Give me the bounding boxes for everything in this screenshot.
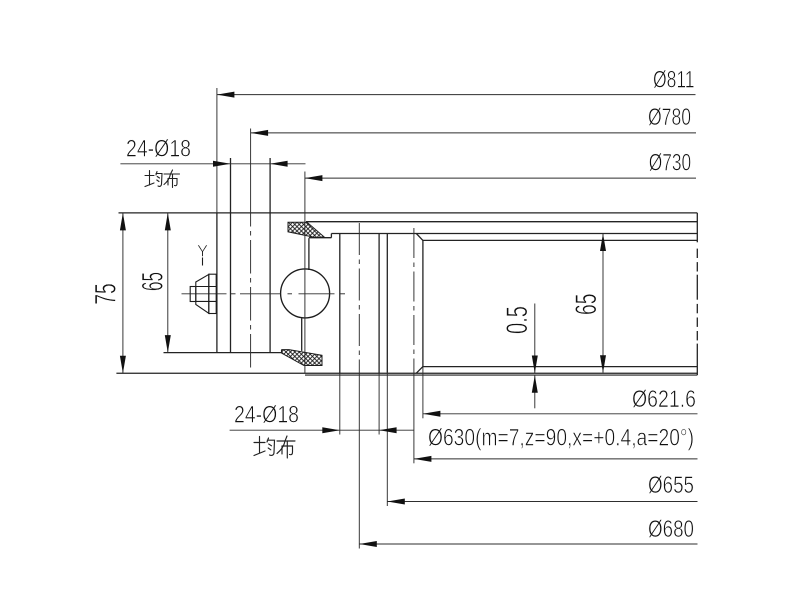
right edge dash 2 — [696, 262, 698, 271]
dim line diameter 730 — [305, 177, 696, 179]
cjk top bu — [164, 170, 180, 188]
svg-text:Ø680: Ø680 — [648, 516, 694, 543]
svg-text:Ø621.6: Ø621.6 — [632, 386, 696, 413]
dim line diameter 621.6 — [423, 413, 698, 415]
arrow d730 — [305, 175, 323, 181]
gear facewidth top line — [423, 239, 697, 241]
arrow bottom 24d18 left — [322, 427, 340, 433]
grease fitting nose — [190, 287, 196, 302]
right edge dash 5 — [696, 318, 698, 327]
top face line (outer ring top / extension) — [119, 212, 698, 214]
arrow d655 — [387, 499, 405, 505]
raceway gap lower outer wall — [301, 318, 303, 351]
outer ring bottom seal lip — [281, 350, 283, 353]
outer ring bolt hole right edge — [269, 158, 271, 353]
seal groove step — [330, 234, 332, 238]
top seal — [288, 222, 325, 237]
outer ring left edge — [216, 213, 218, 353]
arrow 0.5 up — [532, 375, 538, 393]
raceway horizontal centerline — [182, 293, 227, 295]
extension line diameter 655 — [386, 373, 388, 507]
dim line diameter 680 — [359, 543, 697, 545]
inner ring top face — [331, 233, 697, 235]
arrow 65 right down — [600, 355, 606, 373]
dim line 65 left — [167, 213, 169, 353]
inner bolt hole centerline — [358, 223, 360, 392]
gear top chamfer — [416, 234, 423, 241]
arrow d621.6 — [423, 411, 441, 417]
gear bottom chamfer — [416, 367, 423, 374]
dim line 65 right — [602, 234, 604, 373]
gear facewidth bottom line — [423, 366, 697, 368]
grease fitting inner line top — [196, 286, 216, 288]
inner ring bolt hole right edge — [378, 234, 380, 374]
arrow top 24d18 left — [213, 161, 231, 167]
svg-text:Ø630(m=7,z=90,x=+0.4,a=20°): Ø630(m=7,z=90,x=+0.4,a=20°) — [428, 425, 694, 452]
extension line diameter 780 — [250, 129, 252, 227]
arrow d630 — [414, 456, 432, 462]
right edge dash 4 — [696, 304, 698, 313]
svg-text:Ø811: Ø811 — [653, 67, 695, 94]
extension inner hole right — [378, 373, 380, 434]
gear root line — [386, 234, 388, 373]
grease fitting flange — [209, 274, 216, 313]
right edge dash 3 — [696, 275, 698, 300]
grease fitting body trapezoid — [196, 274, 209, 313]
arrow 75 down — [120, 356, 126, 374]
arrow d680 — [359, 541, 377, 547]
dim line diameter 811 — [217, 94, 696, 96]
cover flange bottom line — [306, 221, 697, 223]
raceway gap upper inner wall — [308, 238, 310, 270]
right edge dash 1 — [696, 249, 698, 258]
arrow bottom 24d18 right — [379, 427, 397, 433]
bottom 24-d18 dim line — [230, 429, 414, 431]
arrow 75 up — [120, 213, 126, 231]
dim line 0.5 lower — [534, 375, 536, 408]
svg-text:24-Ø18: 24-Ø18 — [234, 402, 299, 429]
svg-text:Ø780: Ø780 — [648, 104, 691, 131]
svg-text:65: 65 — [570, 294, 603, 316]
bottom chamfer second line — [305, 374, 697, 376]
extension line diameter 680 — [358, 392, 360, 549]
dim line diameter 630 — [414, 458, 698, 460]
arrow d780 — [251, 130, 269, 136]
bottom face line full — [116, 372, 697, 374]
svg-text:Ø655: Ø655 — [648, 472, 694, 499]
extension line diameter 811 — [216, 88, 218, 213]
arrow top 24d18 right — [270, 161, 288, 167]
outer ring bottom face — [164, 352, 282, 354]
inner ring bolt hole left edge — [339, 234, 341, 374]
arrow d811 — [217, 92, 235, 98]
arrow 65 left down — [165, 335, 171, 353]
dim line diameter 655 — [387, 501, 697, 503]
dim line 75 — [122, 213, 124, 373]
gear tip line — [422, 240, 424, 366]
top 24-d18 dim line — [120, 163, 305, 165]
gear pitch centerline — [413, 228, 415, 389]
svg-text:75: 75 — [90, 283, 123, 305]
cjk bottom bu — [277, 436, 295, 458]
right edge dash 6 — [696, 331, 698, 340]
bottom seal — [282, 350, 322, 366]
arrow 65 right up — [600, 234, 606, 252]
cjk bottom jun — [254, 437, 275, 456]
right edge solid bottom — [696, 344, 698, 376]
outer bolt hole centerline — [250, 231, 252, 368]
svg-text:65: 65 — [137, 272, 170, 291]
right edge solid top — [696, 213, 698, 242]
dim line 0.5 upper — [534, 304, 536, 374]
arrow 65 left up — [165, 213, 171, 231]
leader tick under Y — [202, 258, 204, 266]
ball — [281, 269, 330, 318]
extension inner hole left — [339, 373, 341, 434]
grease fitting inner line bottom — [196, 300, 216, 302]
svg-text:Ø730: Ø730 — [649, 150, 692, 177]
cjk top jun — [145, 171, 162, 187]
seal groove floor top — [309, 237, 332, 239]
extension line diameter 621.6 — [422, 367, 424, 419]
svg-text:24-Ø18: 24-Ø18 — [126, 136, 191, 163]
arrow 0.5 down — [532, 356, 538, 374]
svg-text:0.5: 0.5 — [501, 306, 534, 334]
dim line diameter 780 — [251, 132, 696, 134]
extension line diameter 630 — [413, 389, 415, 464]
outer ring bolt hole left edge — [230, 158, 232, 353]
extension line diameter 730 — [304, 172, 306, 374]
